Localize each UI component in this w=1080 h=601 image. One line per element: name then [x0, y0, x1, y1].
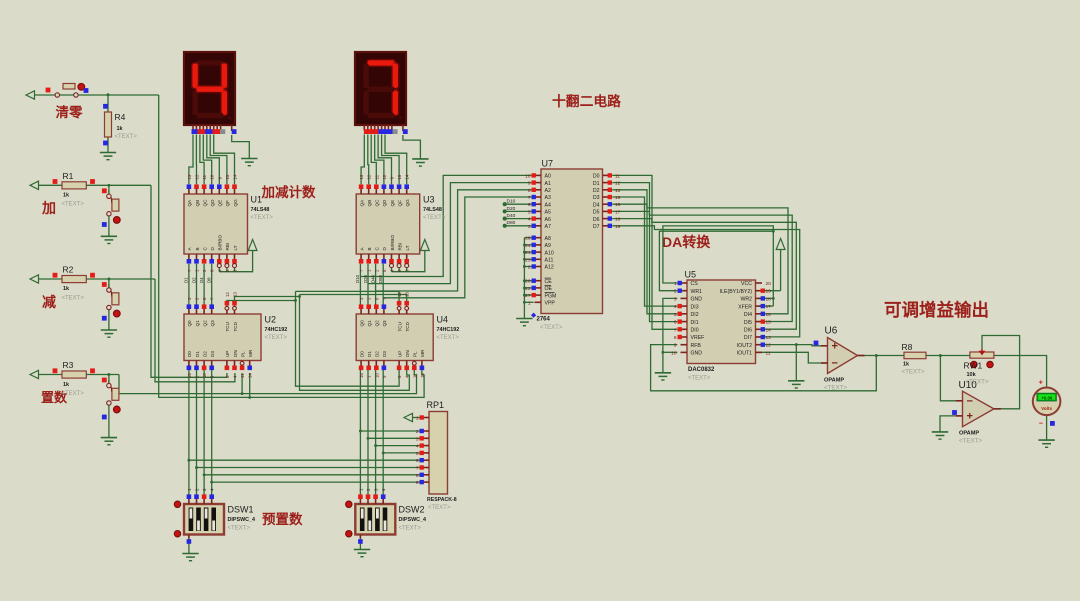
svg-text:2764: 2764 [537, 317, 551, 323]
svg-text:D2: D2 [375, 351, 380, 357]
svg-text:4: 4 [528, 217, 531, 223]
svg-text:UP: UP [397, 351, 402, 357]
svg-text:+: + [967, 410, 973, 422]
svg-text:<TEXT>: <TEXT> [824, 385, 847, 392]
wire U5 ILE to power [758, 250, 781, 291]
voltmeter [1033, 380, 1061, 428]
svg-text:6: 6 [528, 202, 531, 208]
svg-text:1k: 1k [63, 286, 70, 292]
ground DSW1 [182, 554, 198, 561]
wire 清零 net [35, 95, 424, 397]
svg-text:<TEXT>: <TEXT> [966, 379, 989, 386]
svg-text:18: 18 [766, 296, 772, 302]
svg-text:QE: QE [390, 200, 395, 207]
wire U4 TCU tie [296, 291, 400, 306]
svg-text:TCD: TCD [233, 321, 238, 331]
svg-text:A1: A1 [545, 181, 551, 187]
svg-text:<TEXT>: <TEXT> [423, 215, 446, 221]
svg-text:74HC192: 74HC192 [437, 327, 460, 333]
svg-text:预置数: 预置数 [262, 511, 303, 527]
svg-text:D6: D6 [593, 217, 600, 223]
svg-text:QB: QB [195, 200, 200, 207]
svg-text:14: 14 [405, 174, 410, 179]
wire R4 branch [107, 95, 109, 153]
svg-text:IOUT1: IOUT1 [737, 351, 752, 357]
wire U4 data pins to DSW2 bus [360, 370, 383, 496]
svg-text:5: 5 [674, 312, 677, 318]
svg-text:RW1: RW1 [964, 361, 983, 371]
wire RW1 wiper feedback loop [982, 336, 1020, 409]
svg-text:D2: D2 [191, 277, 196, 283]
svg-text:Q3: Q3 [382, 320, 387, 327]
svg-text:7: 7 [674, 327, 677, 333]
svg-text:B: B [367, 247, 372, 250]
svg-text:R8: R8 [902, 342, 913, 352]
power arrow U3 [420, 240, 429, 251]
wire U1 LT RBI BI to power [219, 251, 252, 272]
svg-text:D7: D7 [593, 224, 600, 230]
terminal arrow 清零 [26, 91, 35, 99]
svg-text:13: 13 [359, 174, 364, 179]
svg-text:1: 1 [416, 416, 419, 422]
svg-text:13: 13 [766, 335, 772, 341]
svg-text:10k: 10k [967, 372, 977, 378]
svg-text:D0: D0 [187, 351, 192, 357]
svg-text:U4: U4 [437, 315, 449, 325]
svg-text:TCU: TCU [225, 322, 230, 331]
svg-text:QE: QE [218, 200, 223, 207]
svg-text:QA: QA [359, 199, 364, 207]
svg-text:R4: R4 [115, 112, 126, 122]
svg-text:D1: D1 [367, 351, 372, 357]
svg-text:DI6: DI6 [744, 328, 752, 334]
svg-text:D3: D3 [593, 195, 600, 201]
svg-text:<TEXT>: <TEXT> [62, 296, 85, 302]
svg-text:10: 10 [525, 173, 531, 179]
svg-text:14: 14 [248, 373, 253, 378]
button 加 [102, 188, 120, 236]
svg-text:DI2: DI2 [691, 312, 699, 318]
svg-text:15: 15 [187, 373, 192, 378]
svg-text:−: − [967, 395, 973, 407]
svg-text:+: + [1039, 380, 1043, 387]
svg-text:CE: CE [545, 279, 553, 285]
svg-text:可调增益输出: 可调增益输出 [884, 300, 989, 320]
svg-text:5: 5 [416, 451, 419, 457]
svg-text:<TEXT>: <TEXT> [437, 335, 460, 341]
DAC U5 DAC0832 [671, 270, 771, 382]
svg-text:U2: U2 [265, 315, 277, 325]
svg-text:12: 12 [225, 292, 230, 297]
potentiometer RW1 [964, 349, 994, 386]
wire U7 A4-A7 net stubs [503, 199, 531, 228]
svg-text:WR2: WR2 [740, 297, 752, 303]
terminal arrow RP1 [404, 413, 413, 421]
ground U5 left [655, 373, 671, 380]
svg-text:R3: R3 [63, 360, 74, 370]
wire U5 WR2 XFER ties [758, 298, 773, 306]
wire 减 net [39, 279, 235, 382]
svg-text:Q1: Q1 [367, 320, 372, 327]
svg-text:A12: A12 [545, 265, 554, 271]
label 预置数 [262, 511, 303, 527]
svg-text:D4: D4 [199, 277, 204, 283]
svg-text:<TEXT>: <TEXT> [540, 325, 563, 331]
svg-text:RBI: RBI [397, 243, 402, 251]
svg-text:A7: A7 [545, 224, 551, 230]
svg-text:D1: D1 [184, 277, 189, 283]
svg-text:QF: QF [397, 200, 402, 207]
svg-text:VCC: VCC [741, 281, 752, 287]
ground display1 [241, 159, 257, 166]
svg-text:<TEXT>: <TEXT> [115, 134, 138, 140]
wire display2 segment wires [361, 135, 407, 185]
svg-text:14: 14 [420, 373, 425, 378]
svg-text:15: 15 [359, 373, 364, 378]
svg-text:A9: A9 [545, 243, 551, 249]
button 置数 [102, 378, 120, 438]
7-segment display 2 showing 7 [355, 52, 408, 134]
wire 置数 net [39, 370, 417, 394]
wire RP1 to DSW2 nets [360, 431, 421, 453]
svg-text:DN: DN [405, 350, 410, 357]
net labels first digit [184, 277, 212, 283]
svg-text:+0.00: +0.00 [1041, 395, 1053, 400]
svg-text:XFER: XFER [738, 304, 752, 310]
svg-text:20: 20 [766, 281, 772, 287]
svg-text:A2: A2 [545, 188, 551, 194]
ground 加 [101, 236, 117, 243]
svg-text:R1: R1 [63, 171, 74, 181]
wire 加 net [39, 185, 227, 377]
svg-text:DI7: DI7 [744, 335, 752, 341]
svg-text:QC: QC [375, 199, 380, 207]
svg-text:RFB: RFB [691, 343, 702, 349]
ground U7 [516, 319, 532, 326]
svg-text:14: 14 [766, 327, 772, 333]
svg-text:DSW2: DSW2 [399, 505, 425, 515]
wire U6 output to R8 [858, 355, 905, 357]
svg-text:<TEXT>: <TEXT> [959, 438, 982, 445]
svg-text:19: 19 [615, 224, 621, 230]
svg-text:20: 20 [525, 279, 531, 285]
svg-text:U1: U1 [251, 195, 263, 205]
svg-text:PGM: PGM [545, 293, 557, 299]
svg-text:PL: PL [413, 351, 418, 357]
svg-text:11: 11 [202, 174, 207, 179]
svg-text:DI1: DI1 [691, 320, 699, 326]
svg-text:DI4: DI4 [744, 312, 752, 318]
svg-text:13: 13 [405, 292, 410, 297]
svg-text:11: 11 [615, 173, 620, 179]
wire RP1 to DSW1 nets [189, 460, 422, 482]
svg-text:LT: LT [405, 245, 410, 250]
svg-text:12: 12 [195, 174, 200, 179]
svg-text:2: 2 [416, 429, 419, 435]
svg-text:3: 3 [674, 296, 677, 302]
wire U7 D0-D3 to U5 DI0-DI3 [612, 175, 677, 329]
svg-text:9: 9 [528, 181, 531, 187]
svg-text:QG: QG [233, 199, 238, 207]
svg-text:U3: U3 [423, 195, 435, 205]
wire display1 segment wires [189, 135, 235, 185]
svg-text:D20: D20 [363, 274, 368, 283]
svg-text:<TEXT>: <TEXT> [251, 215, 274, 221]
wire R8 to RW1 and node [926, 356, 970, 401]
wire U4 TCD tie [300, 295, 407, 307]
svg-text:2: 2 [528, 265, 531, 271]
svg-text:1k: 1k [903, 362, 910, 368]
svg-text:10: 10 [671, 350, 677, 356]
svg-text:+: + [832, 340, 838, 352]
svg-text:D0: D0 [359, 351, 364, 357]
label DA转换 [662, 234, 711, 250]
svg-text:TCD: TCD [405, 321, 410, 331]
label 清零 [56, 104, 83, 120]
svg-text:D2: D2 [202, 351, 207, 357]
svg-text:D80: D80 [378, 274, 383, 283]
wire voltmeter to ground [1046, 415, 1048, 440]
svg-text:11: 11 [412, 373, 417, 378]
svg-text:BI/RBO: BI/RBO [218, 235, 223, 251]
EPROM U7 2764 [525, 159, 621, 332]
svg-text:7: 7 [528, 195, 531, 201]
svg-text:15: 15 [766, 320, 772, 326]
svg-text:7: 7 [416, 466, 419, 472]
svg-text:13: 13 [233, 292, 238, 297]
svg-text:15: 15 [225, 174, 230, 179]
wire U5 IOUT1 to U6 inverting [758, 352, 828, 363]
ground R4 [100, 153, 116, 160]
svg-text:12: 12 [615, 181, 621, 187]
resistor R4 [103, 104, 137, 146]
wire RW1 to voltmeter [994, 356, 1047, 388]
wire U1 outputs to U2 [189, 264, 212, 307]
svg-text:16: 16 [766, 312, 772, 318]
decoder U3 74LS48 [356, 174, 446, 272]
svg-text:D0: D0 [593, 174, 600, 180]
resistor pack RP1 RESPACK-8 [416, 400, 457, 511]
svg-text:8: 8 [674, 335, 677, 341]
svg-text:13: 13 [615, 188, 621, 194]
svg-text:RP1: RP1 [427, 400, 445, 410]
svg-text:A4: A4 [545, 202, 551, 208]
svg-text:3: 3 [416, 436, 419, 442]
svg-text:11: 11 [766, 350, 771, 356]
svg-text:<TEXT>: <TEXT> [62, 202, 85, 208]
label 减 [42, 294, 56, 310]
svg-text:12: 12 [766, 343, 772, 349]
svg-text:A8: A8 [545, 236, 551, 242]
svg-text:DIPSWC_4: DIPSWC_4 [399, 517, 427, 523]
power arrow U5 [776, 239, 785, 250]
svg-text:QD: QD [210, 199, 215, 207]
svg-text:9: 9 [416, 480, 419, 486]
terminal arrow 减 [30, 275, 39, 283]
svg-text:26: 26 [525, 236, 531, 242]
svg-text:ILE(BY1/BY2): ILE(BY1/BY2) [720, 289, 753, 295]
svg-text:D2: D2 [593, 188, 600, 194]
svg-text:1k: 1k [117, 126, 124, 132]
svg-text:1: 1 [674, 281, 677, 287]
svg-text:3: 3 [528, 224, 531, 230]
resistor R3 [53, 360, 95, 397]
svg-text:D1: D1 [195, 351, 200, 357]
svg-text:加: 加 [41, 200, 56, 216]
ground 减 [101, 330, 117, 337]
svg-text:74HC192: 74HC192 [265, 327, 288, 333]
wire U7 D4-D7 to U5 DI4-DI7 [612, 204, 800, 337]
svg-text:11: 11 [240, 373, 245, 378]
svg-text:GND: GND [691, 351, 703, 357]
wire TCU to U4 UP [227, 291, 399, 386]
svg-text:A5: A5 [545, 210, 551, 216]
svg-text:11: 11 [374, 174, 379, 179]
svg-text:IOUT2: IOUT2 [737, 343, 752, 349]
op-amp U10 OPAMP [952, 380, 1001, 445]
svg-text:TCU: TCU [397, 322, 402, 331]
svg-text:U6: U6 [825, 326, 838, 337]
svg-text:12: 12 [397, 292, 402, 297]
wire DSW1 to ground [188, 537, 190, 554]
svg-text:22: 22 [525, 286, 531, 292]
resistor R1 [53, 171, 95, 208]
svg-text:17: 17 [615, 209, 621, 215]
svg-text:27: 27 [525, 293, 531, 299]
DIP switch DSW1 [174, 488, 255, 544]
svg-text:LT: LT [233, 245, 238, 250]
svg-text:<TEXT>: <TEXT> [62, 391, 85, 397]
svg-text:6: 6 [416, 458, 419, 464]
svg-text:OPAMP: OPAMP [824, 378, 844, 384]
button 清零 [46, 83, 89, 97]
svg-text:QA: QA [187, 199, 192, 207]
svg-text:U7: U7 [542, 159, 554, 169]
svg-text:A0: A0 [545, 174, 551, 180]
svg-text:12: 12 [367, 174, 372, 179]
terminal arrow 置数 [30, 370, 39, 378]
7-segment display 1 showing 4 [184, 52, 237, 134]
svg-text:清零: 清零 [56, 104, 83, 120]
svg-text:1k: 1k [63, 193, 70, 199]
svg-text:D80: D80 [507, 220, 516, 226]
resistor R2 [53, 265, 95, 302]
svg-text:GND: GND [691, 297, 703, 303]
svg-text:D4: D4 [593, 202, 600, 208]
svg-text:QG: QG [405, 199, 410, 207]
wire TCD to U4 DN [235, 295, 410, 391]
svg-text:D40: D40 [370, 274, 375, 283]
svg-text:17: 17 [766, 304, 772, 310]
svg-text:8: 8 [416, 473, 419, 479]
svg-text:21: 21 [525, 250, 531, 256]
svg-text:14: 14 [233, 174, 238, 179]
wire U5 RFB feedback from U6 output [651, 345, 877, 391]
wire U7 unused address and control to ground [524, 238, 533, 319]
svg-text:D40: D40 [507, 213, 516, 219]
svg-text:VREF: VREF [691, 335, 705, 341]
wire display2 common to ground [403, 135, 421, 159]
svg-text:MR: MR [420, 349, 425, 357]
svg-text:DI3: DI3 [691, 304, 699, 310]
svg-text:十翻二电路: 十翻二电路 [552, 93, 621, 109]
svg-text:WR1: WR1 [691, 289, 703, 295]
svg-text:QC: QC [202, 199, 207, 207]
svg-text:DI5: DI5 [744, 320, 752, 326]
svg-text:D3: D3 [210, 351, 215, 357]
svg-text:DI0: DI0 [691, 328, 699, 334]
svg-text:减: 减 [42, 294, 56, 310]
svg-text:VPP: VPP [545, 301, 556, 307]
wire DSW2 to ground [359, 537, 361, 550]
wire U5 IOUT2 to U6 noninverting and ground [758, 345, 828, 381]
svg-text:QF: QF [225, 200, 230, 207]
svg-text:QB: QB [367, 200, 372, 207]
svg-text:D10: D10 [507, 199, 516, 205]
wire U10 noninverting to ground [940, 416, 963, 432]
svg-text:1k: 1k [63, 382, 70, 388]
svg-text:D10: D10 [355, 274, 360, 283]
label 加减计数 [261, 184, 316, 200]
svg-text:15: 15 [397, 174, 402, 179]
wire display1 common to ground [232, 135, 250, 159]
svg-text:PL: PL [240, 351, 245, 357]
svg-text:<TEXT>: <TEXT> [228, 526, 251, 532]
svg-text:D1: D1 [593, 181, 600, 187]
svg-text:15: 15 [615, 195, 621, 201]
svg-text:UP: UP [225, 351, 230, 357]
resistor R8 [902, 342, 927, 376]
DIP switch DSW2 [346, 488, 426, 544]
label 可调增益输出 [884, 300, 989, 320]
svg-text:13: 13 [187, 174, 192, 179]
svg-text:MR: MR [248, 349, 253, 357]
terminal arrow 加 [30, 181, 39, 189]
net labels second digit [355, 274, 383, 283]
label 十翻二电路 [552, 93, 621, 109]
decoder U1 74LS48 [184, 174, 273, 272]
svg-text:Volts: Volts [1041, 406, 1052, 411]
svg-text:4: 4 [674, 304, 677, 310]
svg-text:加减计数: 加减计数 [261, 184, 316, 200]
ground U10 [932, 432, 948, 439]
svg-text:9: 9 [674, 343, 677, 349]
svg-text:23: 23 [525, 257, 531, 263]
wire U5 CS WR1 loop [659, 226, 773, 306]
svg-text:DN: DN [233, 350, 238, 357]
svg-text:Q3: Q3 [210, 320, 215, 327]
svg-text:RESPACK-8: RESPACK-8 [427, 497, 457, 503]
svg-text:D8: D8 [207, 277, 212, 283]
power arrow U1 [248, 240, 257, 251]
svg-text:<TEXT>: <TEXT> [902, 369, 925, 376]
svg-text:10: 10 [202, 373, 207, 378]
svg-text:D5: D5 [593, 210, 600, 216]
button 减 [102, 282, 120, 330]
svg-text:−: − [832, 358, 838, 370]
svg-text:74LS48: 74LS48 [251, 207, 270, 213]
svg-text:Q2: Q2 [202, 320, 207, 327]
wire RP1 pin1 to terminal [413, 417, 422, 419]
label 置数 [41, 390, 68, 405]
svg-text:DAC0832: DAC0832 [688, 367, 715, 373]
svg-text:A3: A3 [545, 195, 551, 201]
svg-text:Q0: Q0 [187, 320, 192, 327]
svg-text:Q2: Q2 [375, 320, 380, 327]
svg-text:6: 6 [674, 320, 677, 326]
svg-text:19: 19 [766, 289, 772, 295]
svg-text:16: 16 [615, 202, 621, 208]
